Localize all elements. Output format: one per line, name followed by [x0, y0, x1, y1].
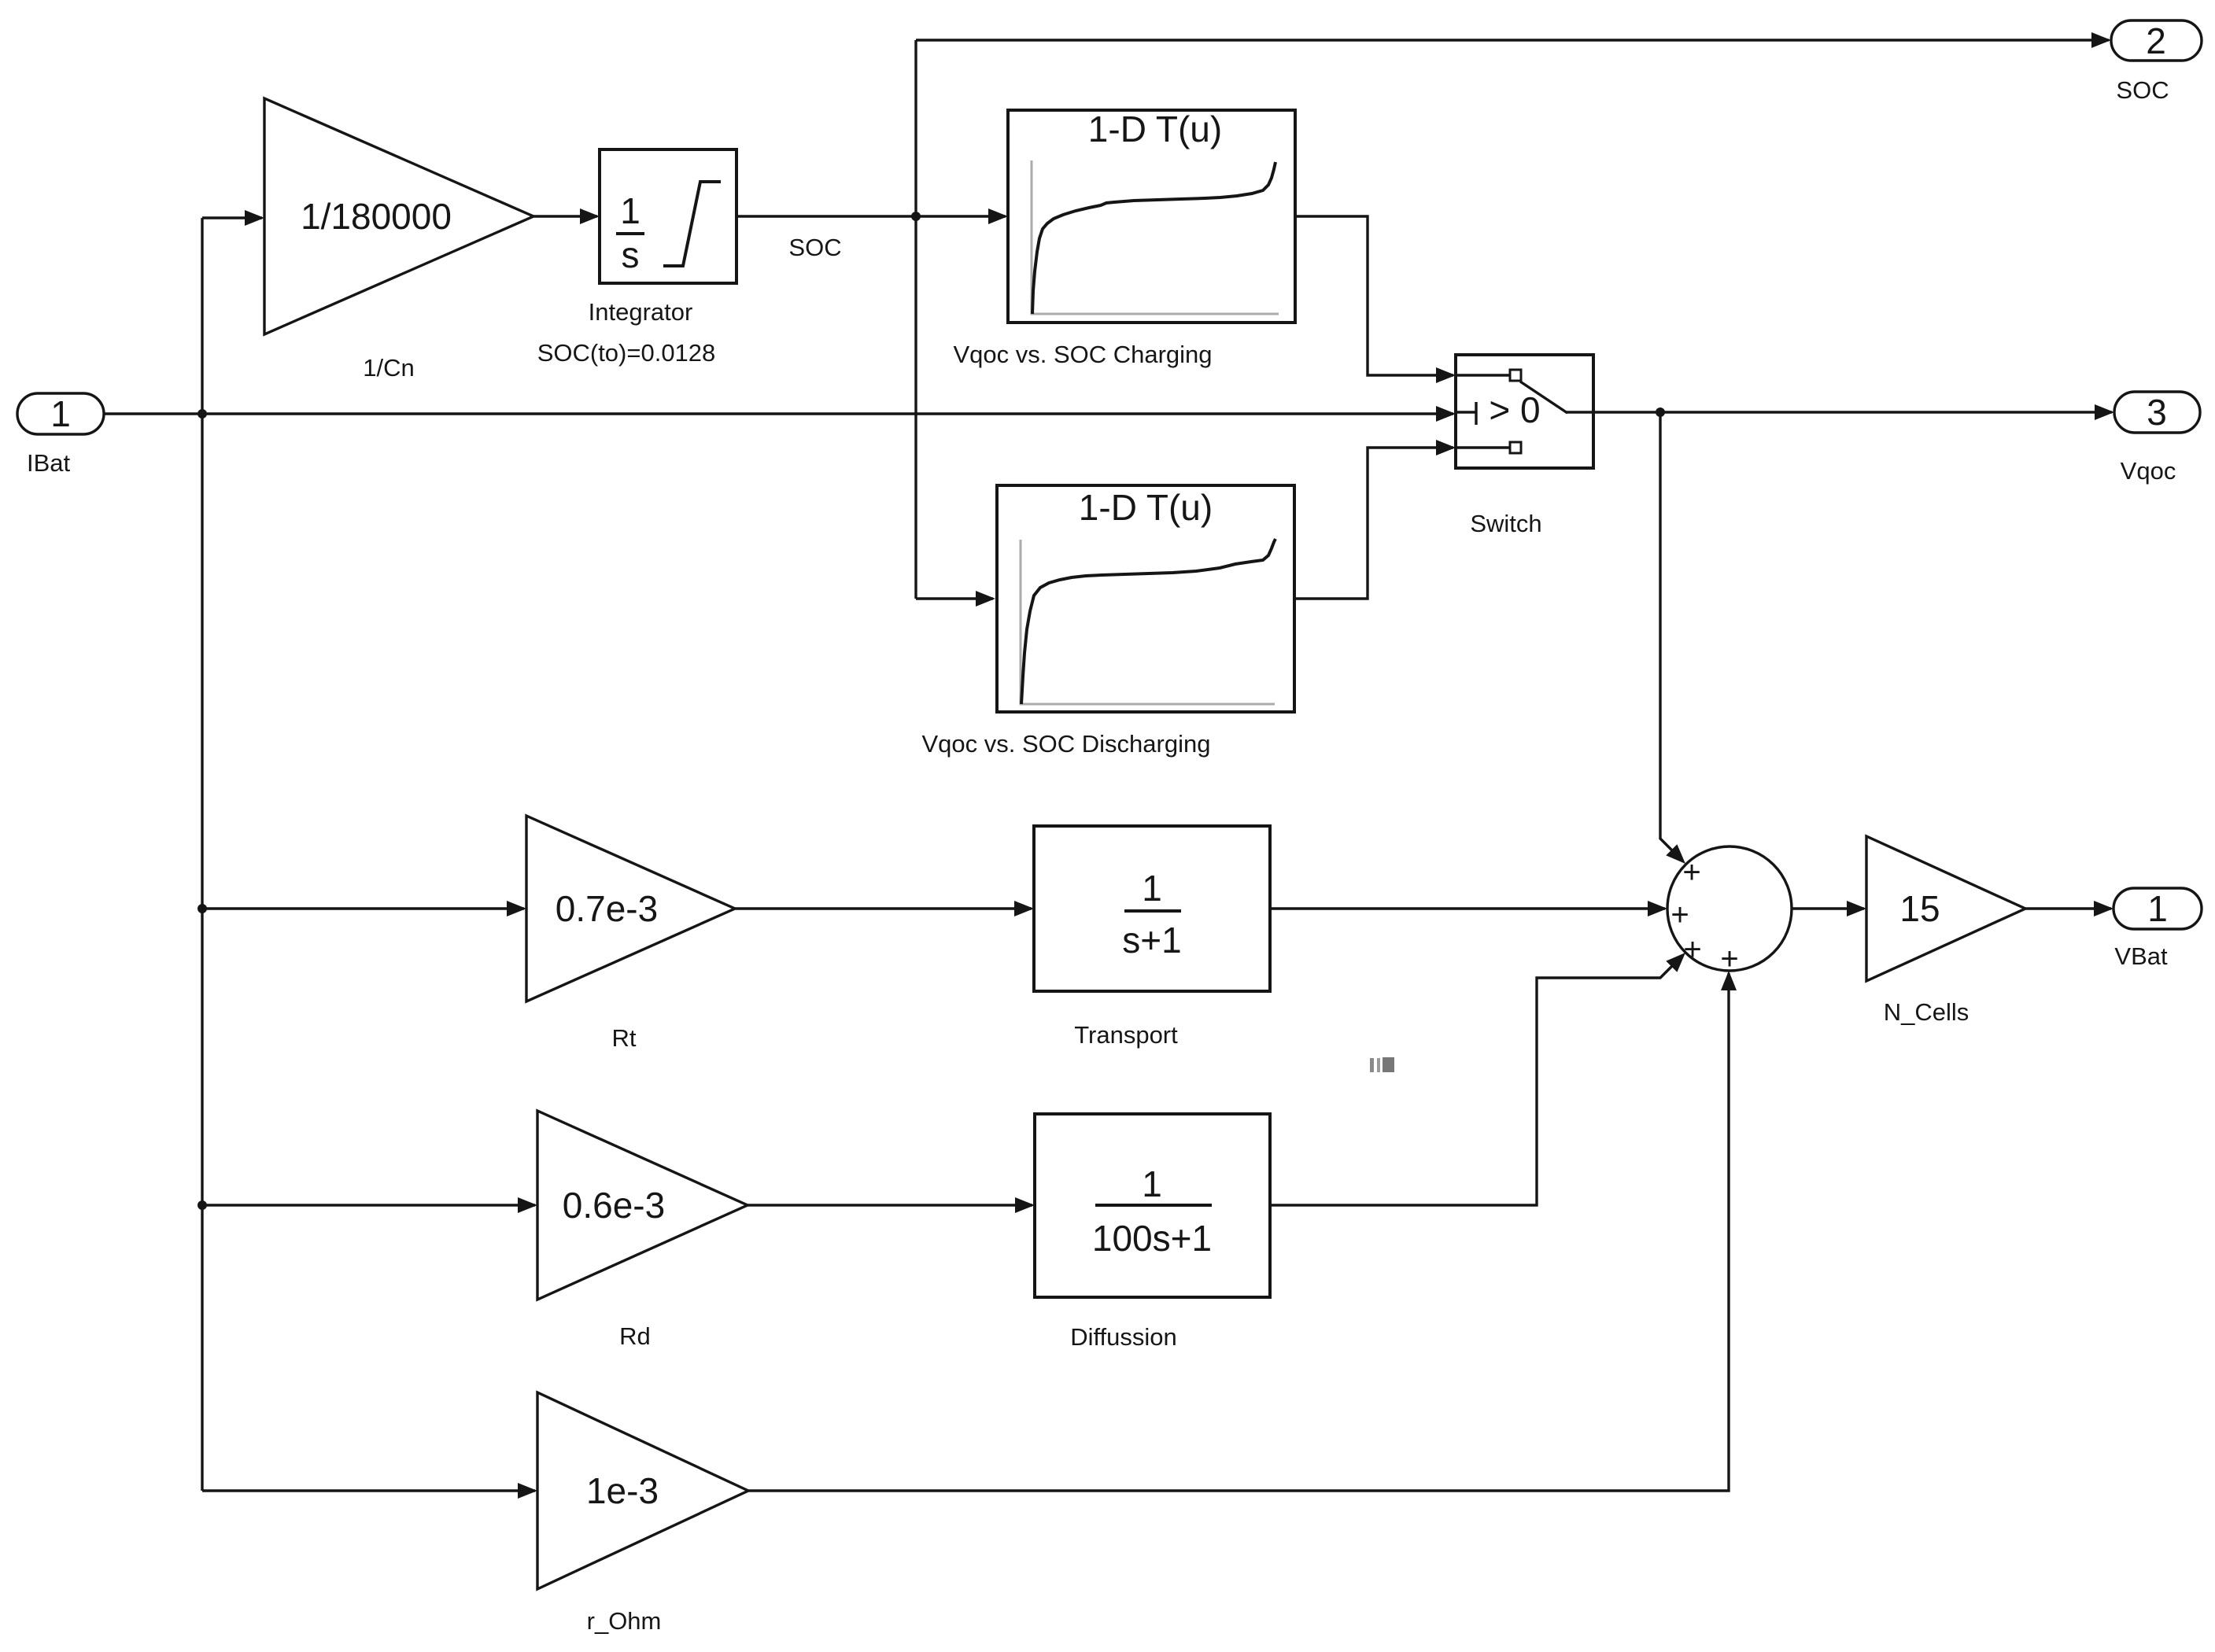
- svg-text:r_Ohm: r_Ohm: [587, 1607, 662, 1635]
- svg-text:1: 1: [1142, 1163, 1162, 1204]
- svg-text:1/Cn: 1/Cn: [363, 354, 414, 382]
- svg-text:0.6e-3: 0.6e-3: [563, 1185, 665, 1226]
- svg-text:SOC: SOC: [788, 234, 841, 261]
- wire gain Rd to Diffussion: [748, 1204, 1032, 1206]
- svg-text:0.7e-3: 0.7e-3: [556, 888, 658, 929]
- integrator U Integrator (1/s with saturation): [600, 149, 736, 283]
- wire trunk to gain Rd: [202, 1204, 535, 1206]
- arrowhead into gain N_Cells: [1847, 901, 1866, 916]
- svg-text:Vqoc vs. SOC Discharging: Vqoc vs. SOC Discharging: [922, 730, 1211, 758]
- svg-text:3: 3: [2147, 392, 2167, 433]
- wire SOC trunk vertical: [914, 40, 917, 599]
- arrowhead into gain r_Ohm: [518, 1483, 537, 1499]
- svg-text:+: +: [1720, 942, 1738, 976]
- arrowhead into Switch control input: [1436, 406, 1456, 422]
- svg-text:Vqoc: Vqoc: [2121, 457, 2176, 485]
- svg-text:1/180000: 1/180000: [301, 196, 452, 237]
- svg-text:1: 1: [1142, 868, 1162, 909]
- wire SOC trunk to discharging lookup: [916, 597, 993, 599]
- svg-text:+: +: [1683, 932, 1701, 967]
- svg-text:VBat: VBat: [2114, 942, 2168, 970]
- gain 1/Cn: [264, 98, 533, 334]
- wire Vqoc node down to sum: [1660, 412, 1682, 860]
- svg-text:s+1: s+1: [1122, 920, 1181, 961]
- svg-text:Vqoc vs. SOC Charging: Vqoc vs. SOC Charging: [953, 341, 1212, 368]
- transfer function Diffussion 1/(100s+1): [1035, 1114, 1270, 1297]
- svg-text:1-D T(u): 1-D T(u): [1088, 109, 1222, 149]
- transfer function Transport 1/(s+1): [1034, 826, 1270, 991]
- wire discharging lookup to Switch input 3: [1294, 448, 1453, 599]
- wire sum to gain N_Cells: [1792, 907, 1864, 909]
- arrowhead into sum from r_Ohm: [1721, 971, 1737, 990]
- arrowhead into gain Rt: [507, 901, 526, 916]
- svg-text:1-D T(u): 1-D T(u): [1079, 487, 1213, 528]
- svg-text:> 0: > 0: [1489, 389, 1540, 430]
- lookup table Vqoc vs. SOC Discharging: [997, 485, 1294, 712]
- arrowhead into gain 1/Cn: [245, 210, 264, 226]
- arrowhead into outport 1: [2094, 901, 2113, 916]
- wire vertical trunk: [201, 218, 203, 1491]
- svg-text:1: 1: [2147, 888, 2168, 929]
- gain Rt: [526, 816, 735, 1001]
- svg-text:Diffussion: Diffussion: [1070, 1323, 1177, 1351]
- wire charging lookup to Switch input 1: [1295, 216, 1453, 375]
- wire Diffussion to sum: [1270, 957, 1682, 1205]
- junction IBat / vertical trunk: [198, 409, 207, 419]
- wire trunk to gain r_Ohm: [202, 1489, 535, 1492]
- svg-text:2: 2: [2146, 20, 2166, 61]
- wire Integrator output to charging lookup: [736, 215, 1006, 217]
- inport 1 IBat: [17, 393, 104, 434]
- wire trunk to gain Rt: [202, 907, 524, 909]
- stray gray artifact marks: [1370, 1057, 1394, 1072]
- svg-text:Switch: Switch: [1470, 510, 1541, 537]
- arrowhead into outport 3: [2095, 404, 2114, 420]
- svg-text:SOC: SOC: [2116, 76, 2169, 104]
- lookup table Vqoc vs. SOC Charging: [1008, 109, 1295, 323]
- sum block: [1667, 846, 1792, 976]
- junction Vqoc node: [1656, 407, 1665, 417]
- arrowhead into Transport: [1014, 901, 1034, 916]
- arrowhead into Vqoc vs. SOC Charging: [988, 208, 1008, 224]
- svg-text:SOC(to)=0.0128: SOC(to)=0.0128: [537, 339, 716, 367]
- svg-text:1: 1: [50, 393, 71, 434]
- outport 1 VBat: [2113, 888, 2202, 929]
- wire SOC to outport 2: [916, 39, 2109, 41]
- wire gain N_Cells to outport 1 VBat: [2025, 907, 2111, 909]
- wire gain Rt to Transport: [735, 907, 1032, 909]
- svg-text:1: 1: [620, 190, 641, 231]
- wire gain r_Ohm to sum: [748, 973, 1729, 1491]
- svg-text:+: +: [1682, 855, 1700, 890]
- svg-text:+: +: [1670, 898, 1689, 932]
- arrowhead into sum from Vqoc: [1666, 844, 1685, 864]
- wire gain 1/Cn to Integrator: [533, 215, 597, 217]
- svg-text:1e-3: 1e-3: [586, 1470, 659, 1511]
- arrowhead into Switch input 3: [1436, 440, 1456, 455]
- arrowhead into sum from Transport: [1648, 901, 1667, 916]
- wire Switch output to outport 3 Vqoc: [1593, 411, 2112, 413]
- arrowhead into gain Rd: [518, 1197, 537, 1213]
- svg-text:IBat: IBat: [27, 449, 71, 477]
- arrowhead into Integrator: [580, 208, 600, 224]
- svg-text:Rd: Rd: [619, 1322, 651, 1350]
- wire Transport to sum: [1270, 907, 1665, 909]
- junction trunk/Rd: [198, 1200, 207, 1210]
- gain Rd: [537, 1111, 748, 1300]
- arrowhead into Switch input 1: [1436, 367, 1456, 383]
- svg-text:100s+1: 100s+1: [1092, 1218, 1212, 1259]
- outport 2 SOC: [2111, 20, 2202, 61]
- svg-text:Integrator: Integrator: [589, 298, 693, 326]
- gain N_Cells: [1866, 836, 2025, 981]
- svg-text:Rt: Rt: [612, 1024, 637, 1052]
- gain r_Ohm: [537, 1392, 748, 1589]
- arrowhead into sum from Diffussion: [1666, 953, 1685, 972]
- svg-text:N_Cells: N_Cells: [1884, 998, 1970, 1026]
- wire IBat to Switch control input: [104, 412, 1453, 415]
- arrowhead into outport 2: [2091, 32, 2111, 48]
- junction trunk/Rt: [198, 904, 207, 913]
- arrowhead into Diffussion: [1015, 1197, 1035, 1213]
- outport 3 Vqoc: [2114, 392, 2200, 433]
- wire trunk to gain 1/Cn: [202, 216, 262, 219]
- svg-text:s: s: [622, 234, 640, 275]
- junction SOC node: [911, 212, 921, 221]
- svg-text:Transport: Transport: [1074, 1021, 1178, 1049]
- arrowhead into Vqoc vs. SOC Discharging: [976, 591, 995, 607]
- svg-text:15: 15: [1899, 888, 1940, 929]
- switch Switch: [1456, 355, 1593, 468]
